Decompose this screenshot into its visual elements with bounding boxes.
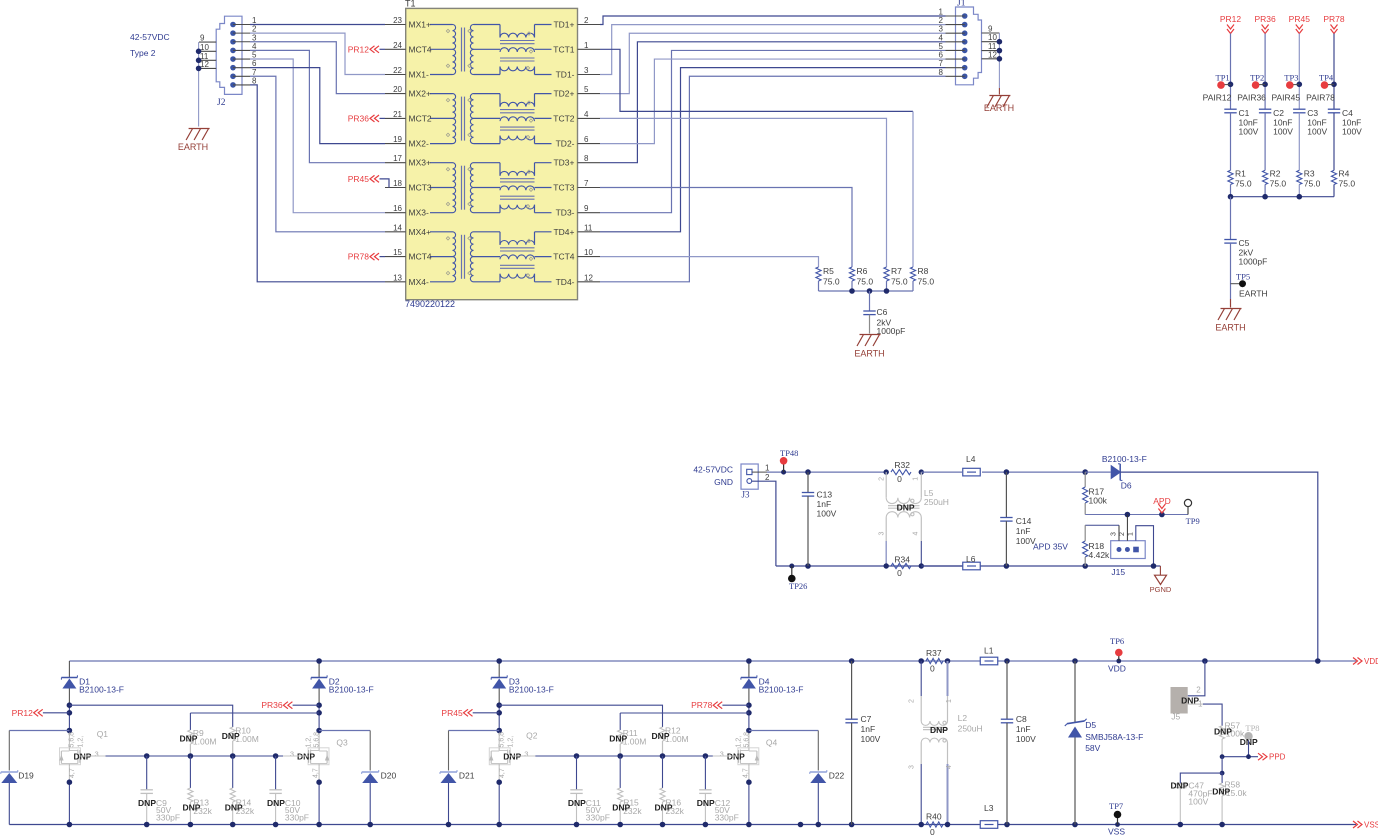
svg-text:R34: R34 xyxy=(894,555,910,565)
svg-text:EARTH: EARTH xyxy=(854,349,884,359)
svg-text:PPD: PPD xyxy=(1269,753,1286,762)
svg-text:VDD: VDD xyxy=(1364,657,1378,666)
svg-text:DNP: DNP xyxy=(652,731,670,741)
svg-text:PR45: PR45 xyxy=(348,174,370,184)
svg-text:TD3+: TD3+ xyxy=(553,158,574,168)
svg-text:MX1+: MX1+ xyxy=(409,20,431,30)
svg-text:DNP: DNP xyxy=(1170,781,1188,791)
svg-text:5: 5 xyxy=(584,85,589,94)
svg-text:12: 12 xyxy=(584,273,593,282)
svg-text:TCT3: TCT3 xyxy=(553,183,575,193)
svg-text:C8: C8 xyxy=(1016,714,1027,724)
svg-text:24: 24 xyxy=(393,41,402,50)
svg-text:75.0: 75.0 xyxy=(1339,179,1356,189)
svg-text:PAIR36: PAIR36 xyxy=(1237,93,1266,103)
svg-text:TP7: TP7 xyxy=(1109,801,1123,811)
svg-text:4: 4 xyxy=(912,532,919,536)
svg-text:L6: L6 xyxy=(966,554,976,564)
svg-text:D22: D22 xyxy=(829,771,845,781)
svg-text:1,2,: 1,2, xyxy=(78,736,85,748)
svg-text:C2: C2 xyxy=(1273,108,1284,118)
svg-text:22: 22 xyxy=(393,66,402,75)
svg-text:10: 10 xyxy=(584,248,593,257)
svg-text:TP26: TP26 xyxy=(789,581,807,591)
svg-text:Type 2: Type 2 xyxy=(130,48,156,58)
svg-text:L2: L2 xyxy=(958,713,968,723)
svg-text:DNP: DNP xyxy=(568,798,586,808)
svg-text:T1: T1 xyxy=(405,0,416,9)
svg-text:12: 12 xyxy=(200,60,209,69)
svg-text:J3: J3 xyxy=(742,490,751,500)
svg-text:0: 0 xyxy=(930,827,935,835)
svg-text:DNP: DNP xyxy=(612,803,630,813)
svg-text:12: 12 xyxy=(988,50,997,59)
svg-text:PR45: PR45 xyxy=(441,708,463,718)
svg-text:DNP: DNP xyxy=(897,503,915,513)
svg-text:18: 18 xyxy=(393,179,402,188)
svg-text:PR45: PR45 xyxy=(1289,14,1311,24)
svg-text:1: 1 xyxy=(765,464,770,473)
svg-text:PR12: PR12 xyxy=(1220,14,1242,24)
svg-text:250uH: 250uH xyxy=(958,724,983,734)
svg-text:MX4-: MX4- xyxy=(409,277,429,287)
svg-text:PR12: PR12 xyxy=(12,708,34,718)
svg-text:PR12: PR12 xyxy=(348,44,370,54)
svg-text:TCT2: TCT2 xyxy=(553,113,575,123)
svg-text:3: 3 xyxy=(584,66,589,75)
svg-text:DNP: DNP xyxy=(179,734,197,744)
svg-text:TP4: TP4 xyxy=(1319,73,1334,83)
svg-text:15: 15 xyxy=(393,248,402,257)
svg-text:8: 8 xyxy=(939,68,944,77)
svg-text:R40: R40 xyxy=(926,812,942,822)
svg-text:100V: 100V xyxy=(1342,127,1362,137)
svg-text:R7: R7 xyxy=(891,266,902,276)
svg-text:J2: J2 xyxy=(217,98,226,108)
svg-text:DNP: DNP xyxy=(1212,787,1230,797)
svg-text:MX3-: MX3- xyxy=(409,208,429,218)
svg-text:7490220122: 7490220122 xyxy=(405,299,455,309)
svg-text:DNP: DNP xyxy=(222,731,240,741)
svg-text:L3: L3 xyxy=(984,803,994,813)
svg-text:MX4+: MX4+ xyxy=(409,227,431,237)
svg-text:7: 7 xyxy=(584,179,589,188)
svg-text:D20: D20 xyxy=(381,771,397,781)
svg-text:B2100-13-F: B2100-13-F xyxy=(1102,454,1147,464)
svg-text:MCT4: MCT4 xyxy=(409,252,432,262)
svg-text:1nF: 1nF xyxy=(1016,724,1031,734)
svg-text:5,6,8: 5,6,8 xyxy=(743,732,750,748)
svg-text:PAIR12: PAIR12 xyxy=(1203,93,1232,103)
svg-text:75.0: 75.0 xyxy=(891,277,908,287)
svg-text:DNP: DNP xyxy=(930,725,948,735)
svg-text:C6: C6 xyxy=(877,307,888,317)
svg-text:R1: R1 xyxy=(1235,169,1246,179)
svg-text:C4: C4 xyxy=(1342,108,1353,118)
svg-text:PGND: PGND xyxy=(1150,585,1172,594)
svg-text:3: 3 xyxy=(909,765,916,769)
svg-text:3: 3 xyxy=(720,749,724,758)
svg-text:100V: 100V xyxy=(1273,127,1293,137)
svg-text:1: 1 xyxy=(584,41,589,50)
svg-text:L1: L1 xyxy=(984,646,994,656)
svg-text:TP5: TP5 xyxy=(1236,272,1250,282)
svg-text:PAIR78: PAIR78 xyxy=(1306,93,1335,103)
svg-text:C14: C14 xyxy=(1016,516,1032,526)
svg-text:D21: D21 xyxy=(459,771,475,781)
svg-text:C13: C13 xyxy=(817,490,833,500)
svg-text:VSS: VSS xyxy=(1364,821,1378,830)
svg-text:3: 3 xyxy=(524,749,528,758)
svg-text:6: 6 xyxy=(584,135,589,144)
svg-text:100V: 100V xyxy=(1239,127,1259,137)
svg-text:0: 0 xyxy=(930,664,935,674)
svg-text:3: 3 xyxy=(290,749,294,758)
svg-text:APD 35V: APD 35V xyxy=(1033,542,1068,552)
svg-text:MX2-: MX2- xyxy=(409,139,429,149)
svg-text:PR78: PR78 xyxy=(1323,14,1345,24)
svg-text:20: 20 xyxy=(393,85,402,94)
svg-text:D19: D19 xyxy=(18,771,34,781)
svg-text:1000pF: 1000pF xyxy=(1239,257,1268,267)
svg-text:Q1: Q1 xyxy=(97,729,109,739)
svg-text:1: 1 xyxy=(946,699,953,703)
svg-text:3: 3 xyxy=(95,749,99,758)
svg-text:250uH: 250uH xyxy=(924,497,949,507)
svg-text:75.0: 75.0 xyxy=(1270,179,1287,189)
svg-text:MX3+: MX3+ xyxy=(409,158,431,168)
svg-text:R32: R32 xyxy=(894,460,910,470)
svg-text:R5: R5 xyxy=(823,266,834,276)
svg-text:58V: 58V xyxy=(1085,743,1100,753)
svg-text:C1: C1 xyxy=(1239,108,1250,118)
svg-text:2: 2 xyxy=(1119,532,1126,536)
svg-text:TP3: TP3 xyxy=(1284,73,1298,83)
svg-text:TD4+: TD4+ xyxy=(553,227,574,237)
svg-text:SMBJ58A-13-F: SMBJ58A-13-F xyxy=(1085,732,1143,742)
svg-text:DNP: DNP xyxy=(267,798,285,808)
svg-text:4,7: 4,7 xyxy=(499,768,506,778)
svg-text:13: 13 xyxy=(393,273,402,282)
svg-text:EARTH: EARTH xyxy=(984,103,1014,113)
svg-text:17: 17 xyxy=(393,154,402,163)
svg-text:R3: R3 xyxy=(1304,169,1315,179)
svg-text:10: 10 xyxy=(988,33,997,42)
svg-text:19: 19 xyxy=(393,135,402,144)
svg-text:0: 0 xyxy=(897,568,902,578)
svg-text:APD: APD xyxy=(1153,496,1170,506)
svg-text:21: 21 xyxy=(393,110,402,119)
svg-text:11: 11 xyxy=(584,223,593,232)
svg-text:EARTH: EARTH xyxy=(1215,323,1245,333)
svg-text:TD2+: TD2+ xyxy=(553,89,574,99)
svg-text:75.0: 75.0 xyxy=(857,277,874,287)
svg-text:9: 9 xyxy=(988,25,993,34)
svg-text:PR78: PR78 xyxy=(691,700,713,710)
svg-text:330pF: 330pF xyxy=(715,813,739,823)
svg-text:TP9: TP9 xyxy=(1186,516,1200,526)
svg-text:4,7: 4,7 xyxy=(742,768,749,778)
svg-text:TP2: TP2 xyxy=(1250,73,1264,83)
svg-text:R4: R4 xyxy=(1339,169,1350,179)
svg-text:9: 9 xyxy=(584,204,589,213)
svg-text:23: 23 xyxy=(393,16,402,25)
svg-text:VSS: VSS xyxy=(1108,827,1125,835)
svg-text:D5: D5 xyxy=(1085,720,1096,730)
svg-text:DNP: DNP xyxy=(182,803,200,813)
svg-text:R2: R2 xyxy=(1270,169,1281,179)
svg-text:TP6: TP6 xyxy=(1110,636,1124,646)
svg-text:TD1+: TD1+ xyxy=(553,20,574,30)
svg-text:GND: GND xyxy=(714,477,733,487)
svg-text:TP8: TP8 xyxy=(1245,723,1259,733)
svg-text:8: 8 xyxy=(252,76,257,85)
svg-text:B2100-13-F: B2100-13-F xyxy=(329,685,374,695)
svg-text:TCT1: TCT1 xyxy=(553,44,575,54)
svg-text:VDD: VDD xyxy=(1108,664,1126,674)
svg-text:4: 4 xyxy=(946,765,953,769)
svg-text:100V: 100V xyxy=(1188,797,1208,807)
svg-text:42-57VDC: 42-57VDC xyxy=(130,32,170,42)
svg-text:J5: J5 xyxy=(1171,712,1180,722)
svg-text:B2100-13-F: B2100-13-F xyxy=(759,685,804,695)
svg-text:1,2,: 1,2, xyxy=(306,736,313,748)
svg-text:4,7: 4,7 xyxy=(69,768,76,778)
svg-text:MX2+: MX2+ xyxy=(409,89,431,99)
svg-text:1,2,: 1,2, xyxy=(507,736,514,748)
svg-text:100V: 100V xyxy=(817,509,837,519)
svg-text:DNP: DNP xyxy=(225,803,243,813)
svg-text:4: 4 xyxy=(584,110,589,119)
svg-text:TD4-: TD4- xyxy=(556,277,575,287)
svg-text:D6: D6 xyxy=(1121,481,1132,491)
svg-text:PR36: PR36 xyxy=(348,113,370,123)
svg-text:330pF: 330pF xyxy=(285,813,309,823)
svg-text:Q4: Q4 xyxy=(766,738,778,748)
svg-text:B2100-13-F: B2100-13-F xyxy=(509,685,554,695)
svg-text:1,2,: 1,2, xyxy=(735,736,742,748)
svg-text:TP48: TP48 xyxy=(780,448,798,458)
svg-text:2: 2 xyxy=(879,477,886,481)
svg-text:TD2-: TD2- xyxy=(556,139,575,149)
svg-text:C5: C5 xyxy=(1239,238,1250,248)
svg-text:PR36: PR36 xyxy=(261,700,283,710)
svg-text:1000pF: 1000pF xyxy=(877,326,906,336)
svg-text:42-57VDC: 42-57VDC xyxy=(693,465,733,475)
svg-text:MCT4: MCT4 xyxy=(409,44,432,54)
svg-text:2: 2 xyxy=(909,699,916,703)
svg-text:TD3-: TD3- xyxy=(556,208,575,218)
svg-text:5,6,8: 5,6,8 xyxy=(69,732,76,748)
svg-text:100V: 100V xyxy=(1016,734,1036,744)
svg-text:75.0: 75.0 xyxy=(918,277,935,287)
svg-text:C3: C3 xyxy=(1307,108,1318,118)
svg-text:J1: J1 xyxy=(957,0,966,9)
svg-text:2: 2 xyxy=(1196,686,1201,695)
svg-text:1nF: 1nF xyxy=(817,499,832,509)
svg-text:330pF: 330pF xyxy=(156,813,180,823)
svg-text:100k: 100k xyxy=(1089,496,1108,506)
svg-text:330pF: 330pF xyxy=(586,813,610,823)
svg-text:1nF: 1nF xyxy=(1016,526,1031,536)
svg-text:100V: 100V xyxy=(1307,127,1327,137)
svg-text:DNP: DNP xyxy=(697,798,715,808)
svg-text:B2100-13-F: B2100-13-F xyxy=(79,685,124,695)
svg-text:TP1: TP1 xyxy=(1216,73,1230,83)
svg-text:9: 9 xyxy=(200,34,205,43)
svg-text:C7: C7 xyxy=(861,714,872,724)
svg-text:10: 10 xyxy=(200,43,209,52)
svg-text:R6: R6 xyxy=(857,266,868,276)
svg-text:1nF: 1nF xyxy=(861,724,876,734)
svg-text:DNP: DNP xyxy=(138,798,156,808)
svg-text:75.0: 75.0 xyxy=(823,277,840,287)
svg-text:R37: R37 xyxy=(926,648,942,658)
svg-text:PAIR45: PAIR45 xyxy=(1271,93,1300,103)
svg-text:Q2: Q2 xyxy=(526,731,538,741)
svg-text:5,6,8: 5,6,8 xyxy=(499,732,506,748)
svg-text:DNP: DNP xyxy=(655,803,673,813)
svg-text:1: 1 xyxy=(1127,532,1134,536)
svg-text:R8: R8 xyxy=(918,266,929,276)
svg-text:TD1-: TD1- xyxy=(556,70,575,80)
svg-text:EARTH: EARTH xyxy=(1239,289,1268,299)
svg-text:Q3: Q3 xyxy=(336,738,348,748)
svg-text:5,6,8: 5,6,8 xyxy=(314,732,321,748)
svg-text:75.0: 75.0 xyxy=(1304,179,1321,189)
svg-text:TCT4: TCT4 xyxy=(553,252,575,262)
svg-text:75.0: 75.0 xyxy=(1235,179,1252,189)
svg-text:4,7: 4,7 xyxy=(313,768,320,778)
svg-text:MCT3: MCT3 xyxy=(409,183,432,193)
svg-text:100V: 100V xyxy=(861,734,881,744)
svg-text:DNP: DNP xyxy=(1214,727,1232,737)
svg-text:2: 2 xyxy=(584,16,589,25)
svg-text:16: 16 xyxy=(393,204,402,213)
svg-text:DNP: DNP xyxy=(609,734,627,744)
svg-text:14: 14 xyxy=(393,223,402,232)
svg-text:PR78: PR78 xyxy=(348,252,370,262)
svg-text:3: 3 xyxy=(879,532,886,536)
svg-text:4.42k: 4.42k xyxy=(1089,550,1111,560)
svg-text:EARTH: EARTH xyxy=(178,142,208,152)
svg-text:J15: J15 xyxy=(1111,567,1125,577)
svg-text:L4: L4 xyxy=(966,454,976,464)
svg-text:PR36: PR36 xyxy=(1254,14,1276,24)
svg-text:8: 8 xyxy=(584,154,589,163)
svg-text:MCT2: MCT2 xyxy=(409,113,432,123)
svg-text:1: 1 xyxy=(912,477,919,481)
svg-text:3: 3 xyxy=(1111,532,1118,536)
svg-text:0: 0 xyxy=(897,474,902,484)
svg-text:MX1-: MX1- xyxy=(409,70,429,80)
